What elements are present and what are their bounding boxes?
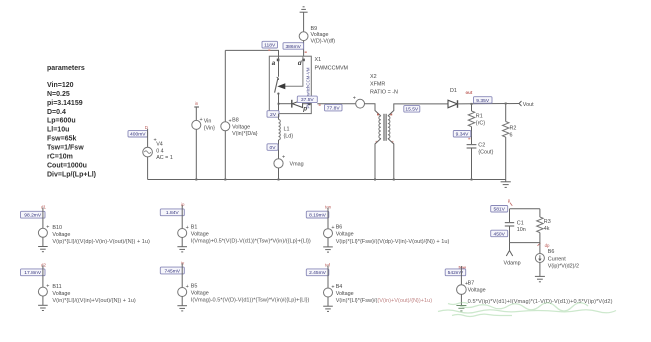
wire: B6b bottom stub [327, 238, 329, 247]
svg-text:B10: B10 [52, 225, 62, 231]
svg-text:+: + [46, 225, 49, 231]
wire: B4 bottom stub [327, 297, 329, 306]
ground (below B5) [177, 306, 187, 311]
svg-text:V(in)*{Ll}*{Fsw}/((V(in)+V(out: V(in)*{Ll}*{Fsw}/((V(in)+V(out)/{N})+1u) [336, 298, 433, 304]
wire: X1 pin c down to L1 [278, 114, 280, 120]
wire: R3 to lower node [539, 233, 541, 243]
svg-text:B4: B4 [336, 284, 343, 290]
svg-text:B8: B8 [232, 118, 239, 124]
wire: B5 top stub [181, 263, 183, 287]
svg-text:out: out [466, 90, 473, 95]
wire: Vin bottom stub [195, 129, 197, 179]
wire: B4 top stub [327, 265, 329, 288]
value label 98.2mV [21, 211, 46, 218]
svg-text:{Vin}: {Vin} [204, 125, 215, 131]
svg-text:0V: 0V [270, 145, 277, 151]
svg-text:V(ip)*V(d2)/2: V(ip)*V(d2)/2 [548, 263, 579, 269]
ground (below B1) [177, 247, 187, 252]
svg-text:1.84V: 1.84V [166, 210, 180, 216]
wire: D1 to Vout flag [458, 103, 519, 105]
svg-text:Div=Lp/(Lp+Ll): Div=Lp/(Lp+Ll) [47, 171, 96, 178]
pin p label [302, 103, 310, 113]
svg-text:V4: V4 [156, 142, 163, 148]
svg-text:98.2mV: 98.2mV [24, 213, 42, 219]
value label 9.35V [474, 97, 493, 104]
svg-text:RATIO = -N: RATIO = -N [370, 89, 398, 95]
value label 0V [267, 144, 278, 151]
svg-text:+: + [46, 283, 49, 289]
wire: top wire from riser to X1 pin a [225, 50, 278, 56]
ground (below B4) [323, 306, 333, 311]
svg-text:118V: 118V [264, 43, 276, 49]
svg-text:Lp=600u: Lp=600u [47, 118, 76, 125]
ground (below B6) [535, 276, 545, 281]
svg-text:400mV: 400mV [130, 132, 146, 138]
subcircuit box X1 PWMCCMVM [269, 56, 311, 113]
svg-text:{Ld}: {Ld} [284, 134, 294, 140]
ground (top, above B9, pointing up) [300, 7, 308, 12]
svg-text:XFMR: XFMR [370, 82, 385, 88]
value label 542mV [445, 269, 466, 276]
capacitor C1 [505, 220, 526, 233]
svg-text:V(D)-V(df): V(D)-V(df) [311, 38, 336, 44]
svg-text:Voltage: Voltage [232, 124, 250, 130]
transformer X2 XFMR [370, 74, 398, 143]
svg-text:B7: B7 [468, 280, 475, 286]
svg-text:B11: B11 [52, 284, 61, 290]
wire: B8 top riser to top wire [224, 50, 226, 121]
voltage source Vmag [274, 154, 304, 168]
svg-text:Voltage: Voltage [468, 287, 486, 293]
wire: B5 bottom stub [181, 297, 183, 306]
junction dots on main circuit [195, 103, 506, 181]
parameters text block [47, 65, 96, 178]
red tick below 9.34V label [468, 138, 470, 140]
svg-text:745mV: 745mV [165, 268, 181, 274]
svg-text:Fsw=65k: Fsw=65k [47, 136, 76, 143]
behavioral source B10 [38, 225, 150, 246]
pin a label [272, 59, 280, 67]
wire: ground to B9 [303, 12, 305, 32]
svg-text:V(ip)*{Ll}*{Fsw}/((V(dp)-V(in): V(ip)*{Ll}*{Fsw}/((V(dp)-V(in)-V(out)/{N… [336, 239, 450, 245]
value label 8.19mV [306, 211, 329, 218]
svg-text:in: in [195, 101, 199, 106]
svg-text:37.5V: 37.5V [301, 97, 315, 103]
wire: V4 top stub [147, 129, 149, 147]
wire: V4 bottom stub [147, 157, 149, 180]
behavioral source B6 (timing) [324, 225, 450, 245]
wire: C2 to rail [471, 148, 473, 180]
svg-text:0.5*V(ip)*V(d1)+I(Vmag)*(1-V(D: 0.5*V(ip)*V(d1)+I(Vmag)*(1-V(D)-V(d1))+0… [468, 299, 613, 305]
wire: B6b top stub [327, 208, 329, 229]
wire: top node of damper [510, 208, 540, 210]
wire: R3 top stub [539, 209, 541, 217]
wire: B8 bottom stub [224, 131, 226, 180]
wire: out node down through R1 [471, 104, 473, 111]
svg-text:+: + [200, 117, 203, 123]
svg-text:+: + [186, 225, 189, 231]
output port flag Vout [519, 101, 534, 108]
behavioral source B11 [38, 283, 135, 304]
wire: pin p to sense source [317, 103, 355, 105]
svg-text:ip: ip [181, 202, 185, 207]
svg-text:77.8V: 77.8V [327, 106, 341, 112]
svg-text:I(Vmag)-0.5*(V(D)-V(d1))*{Tsw}: I(Vmag)-0.5*(V(D)-V(d1))*{Tsw}*V(in)/({L… [191, 298, 310, 304]
value label 118V [262, 41, 278, 48]
svg-text:Voltage: Voltage [191, 290, 209, 296]
value label 15.5V [404, 106, 420, 113]
port flag Vdamp [504, 243, 521, 267]
red pin tick near d [305, 51, 307, 53]
wire: secondary top to D1 [388, 104, 448, 116]
svg-text:Voltage: Voltage [311, 32, 329, 38]
svg-text:D=0.4: D=0.4 [47, 109, 66, 116]
svg-text:Vmag: Vmag [290, 162, 304, 168]
resistor R2 [503, 122, 517, 139]
svg-text:X1: X1 [315, 57, 322, 63]
behavioral source B8 [221, 118, 258, 138]
svg-text:10n: 10n [517, 227, 526, 233]
ground (below B7, green tinted) [456, 306, 466, 311]
ground (below B6b) [323, 247, 333, 252]
svg-text:B6: B6 [336, 225, 343, 231]
wire: B11 bottom stub [42, 296, 44, 305]
resistor R1 [468, 111, 485, 127]
value label 386mV [283, 43, 304, 50]
svg-text:450V: 450V [493, 231, 505, 237]
wire: B10 top stub [42, 208, 44, 229]
value label 581V [491, 206, 508, 213]
svg-text:R2: R2 [510, 126, 517, 132]
wire: B10 bottom stub [42, 237, 44, 246]
ground (main rail, bottom right) [501, 180, 511, 188]
svg-text:V(in)*{D/a}: V(in)*{D/a} [232, 131, 258, 137]
svg-text:8.19mV: 8.19mV [309, 212, 327, 218]
inductor L1 [279, 120, 294, 140]
pin d label [298, 59, 305, 67]
svg-text:Current: Current [548, 257, 566, 263]
svg-text:B5: B5 [191, 283, 198, 289]
wire: B11 top stub [42, 265, 44, 287]
svg-text:2V: 2V [270, 112, 277, 118]
svg-text:N=0.25: N=0.25 [47, 91, 70, 98]
diode D1 [448, 88, 458, 108]
svg-text:I(Vmag)+0.5*(V(D)-V(d1))*{Tsw}: I(Vmag)+0.5*(V(D)-V(d1))*{Tsw}*V(in)/({L… [191, 239, 311, 245]
red tick on p wire [319, 104, 321, 106]
value label 77.8V [325, 104, 343, 111]
X1 reference text [315, 57, 349, 72]
capacitor C2 [467, 142, 494, 155]
svg-text:C2: C2 [478, 142, 485, 148]
red pin tick near a [268, 49, 270, 51]
svg-text:2.45mV: 2.45mV [309, 270, 327, 276]
wire: B9 to X1 pin d [303, 41, 305, 57]
value label 745mV [160, 267, 184, 274]
svg-text:6: 6 [510, 133, 513, 139]
svg-text:{Cout}: {Cout} [478, 149, 493, 155]
wire: B1 top stub [181, 205, 183, 228]
svg-text:C1: C1 [517, 220, 524, 226]
svg-text:386mV: 386mV [285, 44, 301, 50]
wire: R2 branch [505, 104, 507, 122]
svg-text:17.8mV: 17.8mV [24, 270, 42, 276]
wire: C1 top stub [509, 209, 511, 223]
svg-text:Ll=10u: Ll=10u [47, 127, 69, 134]
svg-text:L1: L1 [284, 127, 290, 133]
value label 2V [267, 111, 279, 118]
svg-text:Voltage: Voltage [52, 232, 70, 238]
svg-text:+: + [186, 284, 189, 290]
svg-text:15.5V: 15.5V [405, 107, 419, 113]
svg-text:AC = 1: AC = 1 [156, 155, 173, 161]
svg-text:+: + [331, 284, 334, 290]
svg-text:D1: D1 [450, 88, 457, 94]
svg-text:dp: dp [545, 243, 550, 248]
svg-text:0 4: 0 4 [156, 148, 164, 154]
svg-text:d2: d2 [41, 262, 46, 267]
wire: B7 top stub [460, 266, 462, 285]
behavioral source B5 [178, 283, 310, 303]
value label 17.8mV [21, 269, 46, 276]
wire: primary bottom to rail [375, 139, 381, 180]
svg-text:X2: X2 [370, 74, 377, 80]
svg-text:581V: 581V [493, 207, 505, 213]
svg-text:R3: R3 [544, 219, 551, 225]
svg-text:9.34V: 9.34V [456, 132, 470, 138]
current sense source (primary) [353, 96, 365, 108]
svg-text:Vout: Vout [523, 102, 534, 108]
red flag tick at node p [510, 203, 513, 206]
resistor R3 [537, 217, 551, 233]
svg-text:{rC}: {rC} [476, 121, 485, 127]
svg-text:Voltage: Voltage [336, 291, 354, 297]
wire: B7 bottom stub [460, 294, 462, 305]
svg-text:Vin: Vin [204, 119, 212, 125]
svg-text:B1: B1 [191, 224, 198, 230]
behavioral source B7 [457, 280, 613, 305]
wire: R1 to C2 [471, 127, 473, 145]
svg-text:+: + [282, 154, 285, 160]
svg-text:d: d [298, 60, 302, 67]
svg-text:rC=10m: rC=10m [47, 153, 73, 160]
wire: B6 bottom stub [539, 263, 541, 277]
svg-text:Vdamp: Vdamp [504, 261, 521, 267]
wire: lower node of damper [510, 242, 540, 244]
svg-text:PWMCCMVM: PWMCCMVM [315, 66, 349, 72]
svg-text:B6: B6 [548, 249, 555, 255]
svg-text:+: + [331, 225, 334, 231]
svg-text:Voltage: Voltage [336, 232, 354, 238]
ground (below B10) [38, 247, 48, 252]
wire: sense source to transformer primary [365, 104, 381, 116]
behavioral current source B6 [535, 249, 579, 269]
behavioral source B1 [178, 224, 311, 244]
voltage source V4 (AC perturbation) [143, 138, 173, 162]
svg-text:Vin=120: Vin=120 [47, 82, 74, 89]
green highlighter scribble [438, 303, 616, 317]
behavioral source B4 [324, 284, 433, 304]
X1 internal diode [278, 100, 312, 108]
svg-text:pi=3.14159: pi=3.14159 [47, 100, 83, 107]
wire: L1 to Vmag [278, 140, 280, 159]
behavioral source B9 [299, 26, 335, 44]
svg-text:V(in)*{Ll}/((V(in)+V(out)/{N}): V(in)*{Ll}/((V(in)+V(out)/{N}) + 1u) [52, 298, 135, 304]
X1 internal switch [275, 56, 303, 113]
value label 1.84V [160, 209, 184, 216]
wire: Vmag to rail [278, 168, 280, 180]
svg-text:4k: 4k [544, 226, 550, 232]
svg-text:parameters: parameters [47, 65, 85, 72]
value label 37.5V [297, 96, 317, 103]
svg-text:d1: d1 [41, 205, 46, 210]
value label 400mV on node D [128, 131, 148, 138]
ground (below B11) [38, 305, 48, 310]
svg-text:V(ip)*{Ll}/((V(dp)-V(in)-V(out: V(ip)*{Ll}/((V(dp)-V(in)-V(out)/{N}) + 1… [52, 239, 150, 245]
svg-text:+: + [353, 96, 356, 102]
svg-text:B9: B9 [311, 26, 318, 32]
red flag tick at node dp [538, 243, 541, 246]
svg-text:Voltage: Voltage [52, 291, 70, 297]
svg-text:Voltage: Voltage [191, 231, 209, 237]
svg-text:Cout=1000u: Cout=1000u [47, 162, 87, 169]
value label 450V [491, 230, 508, 237]
svg-text:9.35V: 9.35V [476, 98, 490, 104]
value label 2.45mV [306, 269, 329, 276]
wire: B1 bottom stub [181, 238, 183, 247]
svg-text:R1: R1 [476, 114, 483, 120]
wire: R2 to rail [505, 137, 507, 179]
voltage source Vin [192, 117, 215, 131]
wire: C1 to lower node [509, 226, 511, 243]
wire: secondary bottom to rail [388, 139, 394, 180]
svg-text:Tsw=1/Fsw: Tsw=1/Fsw [47, 145, 84, 152]
svg-text:a: a [272, 60, 276, 67]
value label 9.34V [453, 131, 471, 138]
wire: bottom ground rail [148, 179, 506, 181]
wire: B6 top stub [539, 243, 541, 254]
wire: Vin top stub [195, 107, 197, 121]
